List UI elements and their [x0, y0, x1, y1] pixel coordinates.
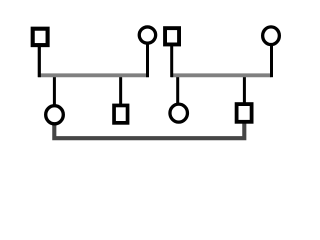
stem I-2: [146, 42, 149, 77]
stem I-1: [38, 45, 41, 77]
stem II-4: [243, 75, 246, 104]
couple bar left: [38, 73, 149, 77]
male II-4: [237, 104, 252, 122]
female I-4: [263, 27, 280, 45]
stem I-4: [270, 43, 273, 77]
female II-1: [46, 106, 64, 124]
female II-3: [170, 104, 188, 122]
stem II-1: [53, 75, 56, 105]
stem II-3: [176, 75, 179, 105]
female I-2: [139, 27, 155, 43]
mating line II-1 x II-4: [54, 122, 244, 138]
male I-3: [165, 28, 179, 44]
male II-2: [114, 105, 128, 122]
male I-1: [33, 29, 48, 45]
stem II-2: [119, 75, 122, 106]
couple bar right: [171, 73, 271, 77]
stem I-3: [170, 45, 173, 77]
